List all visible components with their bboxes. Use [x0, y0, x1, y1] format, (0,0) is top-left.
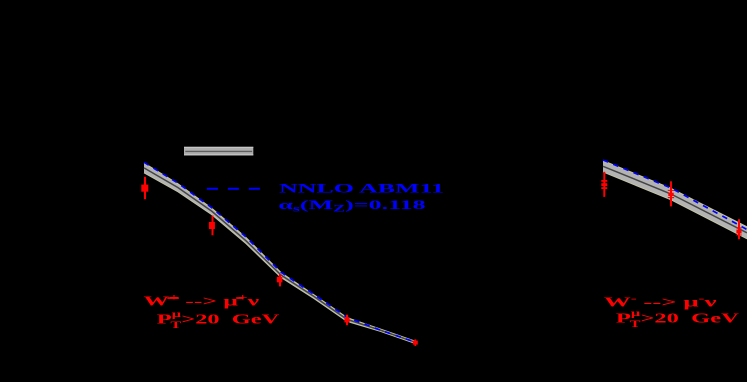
right uncertainty band: [603, 161, 747, 239]
data point L3 marker: [277, 277, 283, 283]
data point L1 error bar: [144, 177, 146, 199]
right band center line: [603, 166, 747, 233]
data point L5 marker: [413, 341, 418, 345]
legend band center line: [185, 150, 252, 152]
data point R3 top cap: [736, 227, 742, 228]
label mu+ superscript plus bar (left): [236, 297, 243, 299]
data point L3 error bar: [279, 274, 281, 287]
data point L2 error bar: [212, 216, 214, 236]
label PT>20 GeV (right): [616, 308, 740, 329]
label W- -> mu- nu (right): [604, 294, 717, 310]
data point L4 error bar: [346, 315, 348, 326]
data point R2 top cap: [668, 190, 674, 191]
legend band swatch: [184, 147, 253, 156]
data point L1 marker: [141, 185, 148, 192]
label W+ -> mu+ nu (left): [144, 292, 260, 308]
data point R2 bottom cap: [668, 197, 674, 198]
data point R2 error bar: [670, 181, 672, 206]
data point L5 error bar: [414, 339, 416, 346]
data point L2 marker: [209, 222, 215, 229]
right band top edge highlight: [603, 161, 747, 227]
data point R1 top cap: [601, 180, 607, 182]
left NNLO dashed curve: [144, 162, 415, 342]
legend dashed line sample: [207, 188, 261, 190]
label W+ superscript plus bar (left): [167, 297, 179, 299]
left band top edge highlight: [144, 163, 415, 341]
data point R3 bottom cap: [736, 235, 742, 236]
data point R3 marker: [736, 230, 741, 234]
data point R2 marker: [668, 193, 673, 196]
right NNLO dashed curve: [603, 160, 747, 230]
svg-text:NNLO ABM11: NNLO ABM11: [279, 182, 444, 195]
left uncertainty band: [144, 163, 415, 344]
left band center line: [144, 168, 415, 342]
data point R3 error bar: [738, 219, 740, 239]
svg-text:PμT>20 GeV: PμT>20 GeV: [616, 308, 740, 329]
svg-text:PμT>20 GeV: PμT>20 GeV: [157, 309, 280, 330]
legend text alpha_s(M_Z)=0.118: [278, 198, 425, 214]
data point R1 bottom cap: [601, 187, 607, 189]
data point R1 error bar: [603, 172, 605, 197]
data point R1 marker: [601, 183, 607, 186]
left band bottom edge highlight: [144, 173, 415, 344]
svg-text:αs(MZ)=0.118: αs(MZ)=0.118: [278, 198, 425, 214]
label PT>20 GeV (left): [157, 309, 280, 330]
data point L4 marker: [344, 317, 349, 322]
legend text NNLO ABM11: [279, 182, 444, 195]
right band bottom edge highlight: [603, 172, 747, 239]
